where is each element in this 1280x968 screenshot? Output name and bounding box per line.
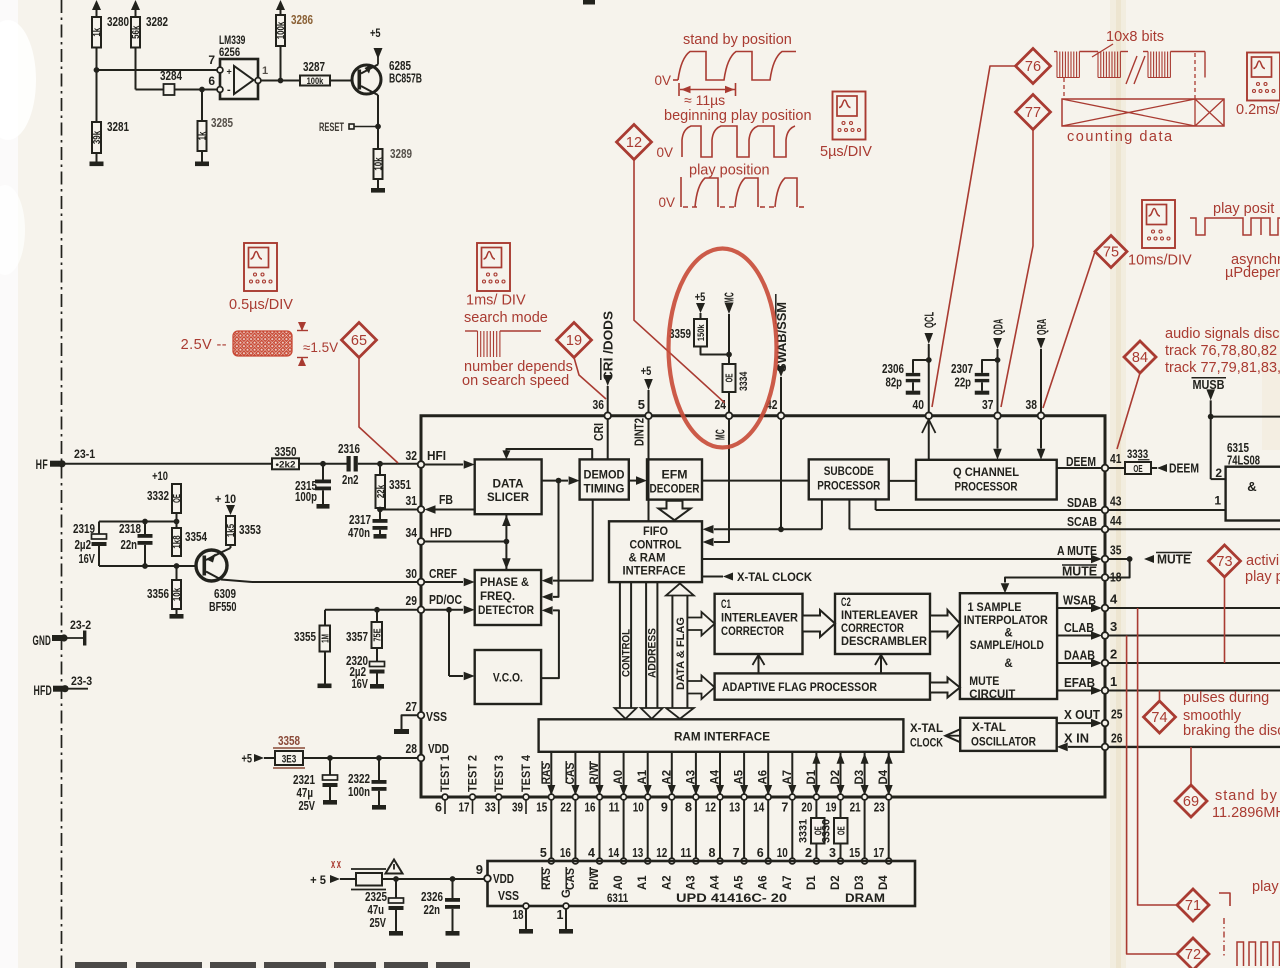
DRAM pin 9 VDD [484, 875, 491, 882]
svg-text:CLAB: CLAB [1064, 621, 1094, 635]
DEEM output arrow [1151, 467, 1157, 469]
wire FB from data slicer [380, 509, 418, 511]
svg-text:FB: FB [439, 493, 453, 507]
block DEMOD TIMING [580, 459, 629, 499]
svg-text:3284: 3284 [160, 69, 182, 83]
block EFM DECODER [647, 459, 702, 499]
svg-text:play posit: play posit [1213, 201, 1274, 217]
node 2306 [926, 357, 932, 363]
svg-text:41: 41 [1110, 451, 1121, 466]
svg-text:74LS08: 74LS08 [1227, 454, 1260, 468]
capacitor 2320 2u2 16V [376, 648, 378, 662]
svg-text:3E3: 3E3 [282, 754, 297, 766]
svg-text:CREF: CREF [429, 567, 457, 581]
svg-text:22: 22 [560, 801, 571, 815]
svg-text:D3: D3 [854, 770, 866, 785]
svg-text:100k: 100k [307, 76, 324, 87]
svg-text:HFD: HFD [430, 526, 452, 540]
svg-text:32: 32 [406, 448, 417, 463]
svg-text:TEST 4: TEST 4 [521, 754, 533, 792]
svg-text:17: 17 [459, 801, 470, 815]
wire HF line [62, 463, 272, 465]
pin 35 A MUTE [1102, 556, 1109, 563]
pin 31 FB [418, 506, 425, 513]
DRAM pin 1 G [563, 903, 569, 909]
bus line D2 [840, 752, 842, 797]
node 74 diamond [1144, 701, 1176, 733]
svg-text:OSCILLATOR: OSCILLATOR [971, 737, 1037, 749]
bus line A0 [623, 752, 625, 797]
svg-text:INTERLEAVER: INTERLEAVER [721, 613, 799, 625]
svg-text:3282: 3282 [146, 15, 168, 29]
scope icon 10ms/DIV [1142, 200, 1175, 248]
svg-text:search mode: search mode [464, 310, 548, 326]
svg-text:HFI: HFI [427, 449, 446, 463]
svg-text:RESET: RESET [319, 122, 344, 134]
pin 10 on IC edge [645, 794, 651, 800]
svg-text:D3: D3 [854, 876, 866, 891]
pin TEST 4 [523, 794, 529, 800]
top page-edge mark [583, 0, 595, 5]
bus line CAS [574, 752, 576, 797]
svg-text:47u: 47u [368, 903, 385, 917]
page edge chain line [61, 0, 63, 968]
svg-text:A6: A6 [758, 876, 770, 891]
resistor 3351 22k [379, 464, 381, 475]
capacitor 2317 470n [377, 507, 383, 513]
capacitor 2321 47u 25V [329, 758, 331, 775]
svg-text:TEST 2: TEST 2 [468, 755, 480, 792]
block X-TAL OSCILLATOR [960, 718, 1056, 751]
svg-text:100p: 100p [295, 490, 317, 504]
pin 1 EFAB [1102, 687, 1109, 694]
bus line D3 [864, 752, 866, 797]
svg-text:23-2: 23-2 [70, 618, 91, 632]
wire A0 to DRAM [623, 800, 625, 861]
svg-text:stand by position: stand by position [683, 32, 792, 48]
svg-text:26: 26 [1111, 731, 1122, 746]
node 2315 [320, 461, 326, 467]
svg-text:V.C.O.: V.C.O. [493, 671, 523, 685]
svg-text:0.5µs/DIV: 0.5µs/DIV [229, 297, 293, 313]
stub subcode left [821, 499, 823, 529]
wire bottom rail to base [99, 565, 196, 567]
svg-text:SCAB: SCAB [1067, 515, 1097, 529]
wire HFI to data slicer [424, 464, 463, 466]
red stub 74 to EFAB [1159, 691, 1161, 702]
svg-text:17: 17 [873, 846, 884, 860]
svg-text:CRI /DODS: CRI /DODS [602, 311, 616, 381]
svg-text:INTERFACE: INTERFACE [623, 566, 686, 578]
svg-text:GND: GND [33, 632, 51, 648]
wire 3284 to pin 6 [175, 89, 218, 91]
svg-text:3280: 3280 [107, 15, 129, 29]
svg-text:VSS: VSS [426, 710, 447, 724]
bus line A4 [719, 752, 721, 797]
wire 3282 to 3284 [135, 48, 137, 90]
pin 16 on IC edge [597, 794, 603, 800]
svg-text:SLICER: SLICER [487, 490, 529, 504]
resistor 3358 3E3 fusible [275, 751, 303, 765]
svg-text:MUTE: MUTE [969, 676, 999, 688]
wire 3350 to 2316 [299, 463, 347, 465]
wire PD/OC into IC [424, 609, 463, 611]
svg-text:22k: 22k [376, 485, 387, 499]
channel CONTROL [619, 582, 621, 708]
svg-text:3355: 3355 [294, 630, 316, 644]
node 12 diamond [617, 125, 652, 160]
svg-text:2318: 2318 [119, 522, 141, 536]
svg-text:INTERPOLATOR: INTERPOLATOR [964, 615, 1049, 627]
scope icon 1ms/DIV [477, 243, 510, 291]
DRAM pin 15 [862, 858, 868, 864]
resistor 3334 OE [723, 364, 736, 392]
svg-text:C2: C2 [841, 597, 851, 609]
svg-text:PD/OC: PD/OC [429, 593, 462, 607]
wire 3351 to FB line [379, 508, 381, 510]
capacitor 2306 82p [913, 360, 929, 373]
inductor 2325 bead [356, 873, 382, 886]
svg-text:1k: 1k [92, 28, 103, 37]
svg-text:10ms/DIV: 10ms/DIV [1128, 253, 1192, 269]
svg-text:13: 13 [632, 846, 643, 860]
svg-text:activi: activi [1246, 553, 1279, 569]
node 2322 [376, 755, 382, 761]
svg-text:2n2: 2n2 [342, 473, 359, 487]
svg-text:A3: A3 [685, 876, 697, 891]
svg-text:TEST 3: TEST 3 [494, 755, 506, 792]
red line 12 to pin 24 [634, 160, 725, 403]
svg-text:INTERLEAVER: INTERLEAVER [841, 610, 919, 622]
pin 40 QCL [925, 412, 932, 419]
wire A1 to DRAM [647, 800, 649, 861]
resistor 3289 [374, 149, 383, 179]
hollow arrow AFP to right [930, 678, 960, 698]
node 75 diamond [1095, 236, 1127, 268]
wire PD/OC to VCO [448, 610, 450, 676]
resistor 3333 OE [1108, 467, 1125, 469]
DRAM pin 17 [886, 858, 892, 864]
svg-text:10: 10 [777, 846, 788, 860]
svg-text:Q CHANNEL: Q CHANNEL [953, 467, 1019, 479]
pin 11 on IC edge [621, 794, 627, 800]
wire CREF to phase det [424, 581, 463, 583]
svg-text:3359: 3359 [669, 327, 691, 341]
svg-text:19: 19 [826, 801, 837, 815]
resistor 3330 OE [834, 818, 848, 844]
svg-text:X-TAL: X-TAL [972, 722, 1006, 734]
svg-text:CIRCUIT: CIRCUIT [969, 689, 1015, 701]
wire CAS to DRAM [574, 800, 576, 861]
wire A4 to DRAM [719, 800, 721, 861]
svg-text:22p: 22p [955, 376, 972, 390]
bus line RAS [550, 752, 552, 797]
node 2307 [995, 357, 1001, 363]
X-TAL CLOCK stub FIFO [702, 576, 723, 578]
svg-text:1: 1 [1214, 494, 1221, 508]
wire 3334 to pin 24 [728, 392, 730, 413]
svg-text:-: - [227, 84, 231, 96]
pin 32 HFI [418, 461, 425, 468]
pin 41 DEEM [1102, 465, 1109, 472]
svg-text:CLOCK: CLOCK [910, 736, 943, 750]
svg-text:8: 8 [685, 801, 692, 815]
svg-text:29: 29 [406, 593, 417, 608]
wire 3287 to base [330, 80, 353, 82]
svg-text:&: & [1004, 658, 1012, 670]
block C2 INTERLEAVER CORRECTOR DESCRAMBLER [835, 594, 930, 654]
wire A2 to DRAM [671, 800, 673, 861]
red line 65 to pin 32 [359, 358, 398, 464]
wire subcode to Q processor [889, 480, 916, 482]
svg-text:25V: 25V [370, 916, 387, 930]
svg-text:3357: 3357 [346, 630, 368, 644]
svg-text:3351: 3351 [389, 478, 411, 492]
svg-text:3350: 3350 [275, 445, 297, 459]
svg-text:SAMPLE/HOLD: SAMPLE/HOLD [970, 640, 1044, 652]
svg-text:FIFO: FIFO [643, 526, 668, 538]
svg-text:100n: 100n [348, 785, 370, 799]
svg-text:DATA & FLAG: DATA & FLAG [675, 617, 687, 690]
svg-text:75: 75 [1103, 245, 1119, 261]
svg-text:37: 37 [982, 397, 993, 412]
gate 6315 74LS08 [1226, 467, 1280, 521]
svg-text:&: & [1004, 628, 1012, 640]
DRAM pin 18 VSS [523, 903, 529, 909]
red line 76 to pin 40 [932, 66, 1016, 407]
wire slicer node to phase det 2 [553, 481, 559, 597]
DRAM pin 5 [548, 858, 554, 864]
svg-text:23-1: 23-1 [74, 447, 95, 461]
svg-text:DATA: DATA [493, 477, 524, 491]
svg-text:QCL: QCL [923, 312, 937, 329]
resistor 3359 150k [700, 313, 702, 319]
red break slashes [1126, 56, 1137, 84]
svg-text:A5: A5 [734, 769, 746, 784]
svg-text:1k8: 1k8 [172, 535, 183, 549]
svg-text:& RAM: & RAM [629, 553, 666, 565]
svg-text:MC: MC [714, 429, 728, 440]
node output/3286 [278, 78, 284, 84]
svg-text:10k: 10k [172, 588, 183, 602]
svg-text:1k5: 1k5 [226, 524, 237, 538]
wire 3280 to node [96, 48, 98, 71]
svg-text:µPdepen: µPdepen [1225, 265, 1280, 281]
svg-text:3281: 3281 [107, 120, 129, 134]
svg-text:2: 2 [1110, 647, 1117, 662]
svg-text:MC: MC [723, 292, 737, 303]
node 77 diamond [1016, 95, 1051, 130]
svg-text:1M: 1M [320, 634, 331, 643]
svg-text:HF: HF [36, 456, 48, 472]
svg-text:28: 28 [406, 741, 417, 756]
pin 34 HFD [418, 538, 425, 545]
pin 7 on IC edge [789, 794, 795, 800]
svg-text:CONTROL: CONTROL [621, 629, 633, 677]
svg-text:RAM INTERFACE: RAM INTERFACE [674, 730, 770, 744]
CRI/DODS external stub [603, 375, 612, 386]
wire 3359 to MC node [701, 347, 730, 355]
resistor 3332 OE [176, 484, 178, 493]
svg-text:OE: OE [1133, 463, 1142, 475]
svg-text:0V: 0V [658, 195, 675, 210]
svg-text:23-3: 23-3 [71, 674, 92, 688]
svg-text:TEST 1: TEST 1 [440, 754, 452, 792]
red stub 69 to X IN line [1190, 747, 1192, 785]
red line 72 to CLAB [1127, 636, 1177, 955]
svg-text:21: 21 [850, 801, 861, 815]
node 3354/3356 [174, 563, 180, 569]
wire pin38 to Q processor [1040, 419, 1042, 449]
svg-text:16: 16 [560, 846, 571, 860]
wire 2325 to pin 9 [382, 878, 485, 880]
svg-text:play p: play p [1245, 569, 1280, 585]
svg-text:X-TAL CLOCK: X-TAL CLOCK [737, 570, 812, 584]
node 2321 [327, 755, 333, 761]
svg-text:7: 7 [208, 53, 215, 67]
svg-text:0.2ms/: 0.2ms/ [1236, 102, 1280, 118]
resistor 3357 75E [376, 610, 378, 622]
svg-text:7: 7 [733, 846, 740, 860]
pin 20 on IC edge [814, 794, 820, 800]
svg-text:track 77,79,81,83,: track 77,79,81,83, [1165, 360, 1280, 376]
node 69 diamond [1175, 785, 1207, 817]
svg-text:DEEM: DEEM [1066, 455, 1096, 469]
resistor 3285 [201, 90, 203, 122]
svg-text:2: 2 [805, 846, 812, 860]
node 3285 junction [199, 87, 205, 93]
svg-text:DEMOD: DEMOD [584, 470, 625, 482]
wire 3332 to top rail [176, 513, 178, 528]
wire A3 to DRAM [695, 800, 697, 861]
svg-text:3287: 3287 [303, 60, 325, 74]
wire pin37 to Q processor [997, 419, 999, 449]
svg-text:31: 31 [406, 493, 417, 508]
arrow AFP to C1 [758, 657, 760, 674]
svg-text:3289: 3289 [390, 147, 412, 161]
DRAM pin 6 [765, 858, 771, 864]
pin 22 on IC edge [573, 794, 579, 800]
wire RAS to DRAM [550, 800, 552, 861]
wire D1 to DRAM [815, 800, 817, 861]
DRAM pin 12 [669, 858, 675, 864]
ground 3281 [96, 153, 98, 162]
node 2326 cap [450, 876, 456, 882]
svg-text:pulses during: pulses during [1183, 690, 1269, 706]
SWAB/SSM stub [777, 366, 786, 377]
red play waveform bottom [1219, 893, 1230, 906]
svg-text:12: 12 [626, 135, 642, 151]
svg-text:3353: 3353 [239, 523, 261, 537]
red line 77 to pin 37 [1001, 130, 1033, 408]
wire collector down [375, 94, 378, 96]
svg-text:5: 5 [638, 397, 645, 412]
capacitor 2319 2u2 16V [98, 522, 100, 535]
wire MUTE node to pin 18 [1108, 559, 1130, 578]
resistor 3282 [135, 3, 137, 17]
wire 3353 to collector [230, 545, 232, 548]
svg-text:1: 1 [557, 908, 564, 922]
svg-text:8: 8 [709, 846, 716, 860]
svg-text:UPD 41416C- 20: UPD 41416C- 20 [676, 891, 787, 905]
svg-text:FREQ.: FREQ. [480, 591, 515, 603]
svg-text:5: 5 [540, 846, 547, 860]
svg-text:PHASE &: PHASE & [480, 577, 529, 589]
svg-text:1ms/ DIV: 1ms/ DIV [466, 293, 526, 309]
svg-text:30: 30 [406, 566, 417, 581]
svg-text:71: 71 [1185, 898, 1201, 914]
node 84 diamond [1124, 341, 1156, 373]
svg-text:D1: D1 [806, 769, 818, 784]
wire HFD [424, 541, 506, 543]
svg-text:2325: 2325 [365, 890, 387, 904]
svg-text:39: 39 [512, 801, 523, 815]
svg-text:0V: 0V [654, 73, 671, 88]
stub subcode to SCAB [848, 499, 850, 529]
wire pin40 to Q processor with up arrow [928, 419, 930, 460]
svg-text:3358: 3358 [278, 734, 300, 748]
svg-text:2µ2: 2µ2 [75, 538, 92, 552]
svg-text:6309: 6309 [214, 587, 236, 601]
svg-text:A0: A0 [613, 770, 625, 785]
capacitor 2315 100p [322, 464, 324, 480]
node 2318 bottom [142, 563, 148, 569]
node MC/3359 [726, 352, 732, 358]
svg-text:VDD: VDD [428, 742, 449, 756]
node 73 diamond [1209, 545, 1241, 577]
bus line A6 [767, 752, 769, 797]
resistor 3280 [96, 3, 98, 17]
wire Q proc to pin 41 [1057, 467, 1102, 469]
resistor 3286 [280, 3, 282, 15]
svg-text:11.2896MH: 11.2896MH [1212, 805, 1280, 821]
svg-text:OE: OE [836, 826, 847, 835]
svg-text:PROCESSOR: PROCESSOR [817, 481, 881, 493]
svg-text:•2k2: •2k2 [276, 460, 296, 471]
ground 3289 [377, 179, 379, 188]
svg-text:on search speed: on search speed [462, 373, 569, 389]
svg-text:1: 1 [262, 65, 268, 77]
bus line A5 [743, 752, 745, 797]
svg-text:DEEM: DEEM [1169, 462, 1199, 476]
pin 14 on IC edge [765, 794, 771, 800]
wire pin42 to FIFO line [780, 419, 782, 530]
svg-text:7: 7 [781, 801, 788, 815]
pin 44 SCAB [1102, 526, 1109, 533]
red burst waveform counting data [1054, 51, 1057, 53]
svg-text:audio signals disc: audio signals disc [1165, 326, 1279, 342]
wire demod to EFM [629, 480, 636, 482]
svg-text:play: play [1252, 879, 1279, 895]
pin 21 on IC edge [862, 794, 868, 800]
ground 3355 [324, 652, 326, 684]
svg-text:19: 19 [566, 333, 582, 349]
wire A6 to DRAM [767, 800, 769, 861]
svg-text:2326: 2326 [421, 890, 443, 904]
svg-text:DAAB: DAAB [1064, 649, 1095, 663]
svg-text:14: 14 [608, 846, 619, 860]
bus line A2 [671, 752, 673, 797]
ground 3356 [176, 609, 178, 614]
red line 19 to pin 36 [574, 358, 606, 400]
svg-text:HFD: HFD [34, 682, 52, 698]
svg-text:84: 84 [1132, 350, 1148, 366]
svg-text:smoothly: smoothly [1183, 708, 1242, 724]
bus line D4 [888, 752, 890, 797]
op-amp comparator 6256 LM339 [220, 59, 258, 99]
svg-text:C1: C1 [721, 599, 731, 611]
node 2318 top [142, 519, 148, 525]
